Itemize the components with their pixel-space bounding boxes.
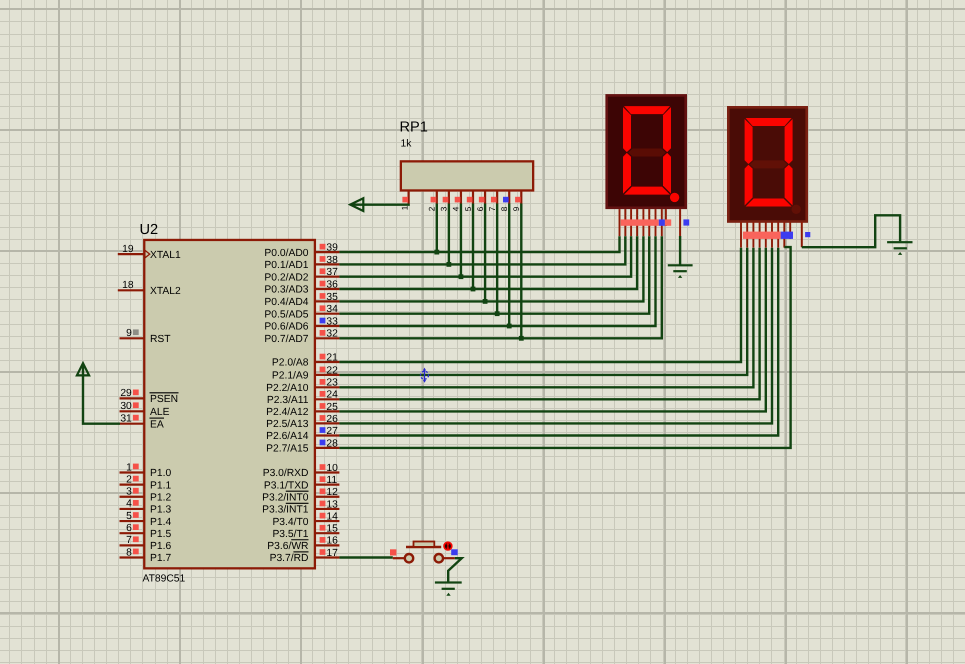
U2 pin 15 P3.5/T1 (right stub): [315, 524, 340, 535]
svg-text:4: 4: [452, 206, 461, 211]
U2 pin 21 P2.0/A8 (right stub): [315, 352, 340, 363]
DS1 terminal squares bar (red): [621, 219, 659, 225]
svg-text:P2.7/A15: P2.7/A15: [266, 444, 309, 455]
U2 pin 22 P2.1/A9 (right stub): [315, 365, 340, 376]
U2 pin name P2.7/A15: [266, 444, 309, 455]
svg-text:P0.0/AD0: P0.0/AD0: [264, 248, 308, 259]
U2 pin 29 PSEN (left stub): [120, 388, 145, 399]
wire P2.6 from U2 to DS2: [339, 248, 778, 436]
svg-text:U2: U2: [140, 222, 159, 238]
U2 pin 6 P1.5 (left stub): [120, 523, 145, 534]
wire P0.3 from U2 to DS1: [339, 236, 637, 289]
U2 pin 9 RST (left stub): [120, 328, 145, 339]
U2 reference label: [140, 222, 159, 238]
U2 pin 12 P3.2/INT0 (right stub): [315, 487, 340, 498]
U2 pin 3 P1.2 (left stub): [120, 487, 145, 498]
svg-text:7: 7: [488, 206, 497, 211]
wire DS2 common to right ground: [802, 215, 900, 247]
svg-text:14: 14: [326, 511, 338, 522]
U2 pin name PSEN: [150, 393, 179, 405]
svg-text:34: 34: [326, 304, 338, 315]
U2 pin name P3.3/INT1: [262, 503, 309, 515]
DS2 segment D (bottom, lit): [746, 199, 792, 207]
wire P0.7 from U2 to DS1: [339, 236, 661, 338]
wire P0.1 from U2 to DS1: [339, 236, 625, 264]
svg-text:8: 8: [500, 206, 509, 211]
U2 pin name P0.7/AD7: [264, 334, 308, 345]
svg-text:ALE: ALE: [150, 407, 170, 418]
DS1 segment G (middle, unlit): [628, 149, 666, 157]
U2 pin name P0.0/AD0: [264, 248, 308, 259]
svg-text:P0.3/AD3: P0.3/AD3: [264, 285, 308, 296]
svg-text:P1.3: P1.3: [150, 505, 171, 516]
U2 pin 28 P2.7/A15 (right stub): [315, 438, 340, 449]
push button right contact: [435, 554, 455, 562]
U2 pin name P2.3/A11: [267, 395, 309, 406]
wire RP1 pin 8 down to P0.6 net: [508, 204, 510, 327]
U2 pin name P3.6/WR: [267, 540, 308, 552]
RP1 pin 6 stub: [476, 191, 485, 212]
DS2 segment E (bottom-left, lit): [745, 165, 753, 206]
U2 pin name P0.6/AD6: [264, 322, 308, 333]
RP1 value label 1k: [401, 139, 413, 150]
svg-text:P1.4: P1.4: [150, 517, 171, 528]
U2 pin name XTAL1: [150, 250, 181, 261]
svg-text:7: 7: [126, 535, 132, 546]
svg-text:38: 38: [326, 255, 338, 266]
svg-text:P3.0/RXD: P3.0/RXD: [263, 468, 309, 479]
RP1 pin 3 stub: [440, 191, 449, 212]
U2 pin name P3.7/RD: [270, 552, 309, 564]
U2 pin 23 P2.2/A10 (right stub): [315, 378, 340, 389]
svg-text:P3.4/T0: P3.4/T0: [272, 517, 308, 528]
svg-text:P1.6: P1.6: [150, 541, 171, 552]
U2 pin name P2.2/A10: [266, 383, 309, 394]
svg-text:19: 19: [122, 244, 134, 255]
svg-text:P1.1: P1.1: [150, 480, 171, 491]
svg-text:EA: EA: [150, 419, 164, 430]
svg-text:22: 22: [326, 365, 338, 376]
RP1 pin 9 stub: [512, 191, 521, 212]
U2 pin name P3.0/RXD: [263, 468, 309, 479]
svg-text:P2.4/A12: P2.4/A12: [266, 407, 309, 418]
U2 pin name P0.4/AD4: [264, 297, 308, 308]
svg-text:P0.5/AD5: P0.5/AD5: [264, 309, 308, 320]
U2 pin name P0.3/AD3: [264, 285, 308, 296]
wire P2.1 from U2 to DS2: [339, 248, 747, 375]
wire RP1 pin 2 down to P0.0 net: [436, 204, 438, 253]
svg-text:27: 27: [326, 426, 338, 437]
wire P0.5 from U2 to DS1: [339, 236, 649, 314]
U2 pin 10 P3.0/RXD (right stub): [315, 463, 340, 474]
wire P0.4 from U2 to DS1: [339, 236, 643, 301]
svg-text:RST: RST: [150, 334, 171, 345]
svg-text:1: 1: [126, 462, 132, 473]
svg-text:6: 6: [126, 523, 132, 534]
U2 pin name P1.4: [150, 517, 171, 528]
wire P2.0 from U2 to DS2: [339, 248, 741, 362]
DS2 terminal squares bar (red): [743, 232, 781, 239]
svg-text:RP1: RP1: [400, 120, 428, 136]
DS1 segment A (top, lit): [624, 106, 670, 114]
U2 pin 37 P0.2/AD2 (right stub): [315, 267, 340, 278]
svg-text:32: 32: [326, 329, 338, 340]
svg-text:30: 30: [120, 401, 132, 412]
svg-text:15: 15: [326, 524, 338, 535]
U2 pin name P1.5: [150, 529, 171, 540]
wire power terminal to U2 EA pin 31: [83, 364, 120, 424]
svg-text:P2.1/A9: P2.1/A9: [272, 371, 309, 382]
U2 pin 5 P1.4 (left stub): [120, 511, 145, 522]
DS1 segment E (bottom-left, lit): [623, 153, 631, 194]
U2 pin name P2.4/A12: [266, 407, 309, 418]
ground symbol right of DS2: [887, 241, 912, 255]
svg-text:4: 4: [126, 499, 132, 510]
DS2 segment F (top-left, lit): [745, 119, 753, 164]
resistor pack RP1 body: [401, 161, 533, 190]
switch blue square marker: [451, 549, 458, 555]
U2 pin name P1.7: [150, 553, 171, 564]
U2 pin 25 P2.4/A12 (right stub): [315, 402, 340, 413]
RP1 pin 4 stub: [452, 191, 461, 212]
svg-text:12: 12: [326, 487, 338, 498]
U2 pin 27 P2.6/A14 (right stub): [315, 426, 340, 437]
svg-text:P3.7/RD: P3.7/RD: [270, 553, 309, 564]
wire P2.2 from U2 to DS2: [339, 248, 753, 388]
svg-text:XTAL1: XTAL1: [150, 250, 181, 261]
svg-text:25: 25: [326, 402, 338, 413]
U2 pin 19 XTAL1 (left stub): [118, 244, 150, 258]
wire RP1 pin 4 down to P0.2 net: [460, 204, 462, 277]
DS2 segment B (top-right, lit): [785, 119, 793, 164]
wire RP1 pin 9 down to P0.7 net: [520, 204, 522, 339]
svg-text:36: 36: [326, 279, 338, 290]
origin marker (blue crosshair): [421, 368, 429, 383]
wire P2.7 from U2 to DS2 (with jog): [339, 247, 790, 448]
DS2 common pin stub: [801, 222, 803, 247]
U2 pin 24 P2.3/A11 (right stub): [315, 390, 340, 401]
DS2 pins (9 stubs below body): [741, 222, 790, 248]
microcontroller U2 AT89C51 body: [144, 240, 315, 568]
U2 pin name ALE: [150, 407, 170, 418]
svg-text:XTAL2: XTAL2: [150, 286, 181, 297]
U2 pin name P2.6/A14: [266, 431, 309, 442]
junction node P0.3 / RP1-5: [471, 287, 476, 292]
wire P2.4 from U2 to DS2: [339, 248, 765, 412]
push button left contact: [393, 554, 413, 562]
svg-text:9: 9: [126, 328, 132, 339]
DS2 decimal point: [792, 205, 801, 214]
svg-text:24: 24: [326, 390, 338, 401]
svg-text:P3.3/INT1: P3.3/INT1: [262, 505, 309, 516]
DS2 floating blue square (second common): [805, 232, 810, 237]
svg-text:P0.1/AD1: P0.1/AD1: [264, 260, 308, 271]
U2 pin name P1.0: [150, 468, 171, 479]
push button actuator bar: [406, 546, 441, 548]
U2 pin name P2.1/A9: [272, 371, 309, 382]
svg-text:23: 23: [326, 378, 338, 389]
DS1 common pin stub: [679, 209, 681, 236]
U2 pin 1 P1.0 (left stub): [120, 462, 145, 473]
svg-text:P1.7: P1.7: [150, 553, 171, 564]
svg-text:33: 33: [326, 316, 338, 327]
U2 pin name P0.1/AD1: [264, 260, 308, 271]
svg-text:29: 29: [120, 388, 132, 399]
svg-text:26: 26: [326, 414, 338, 425]
U2 pin 26 P2.5/A13 (right stub): [315, 414, 340, 425]
U2 pin name RST: [150, 334, 171, 345]
svg-text:P2.0/A8: P2.0/A8: [272, 358, 309, 369]
svg-text:28: 28: [326, 438, 338, 449]
U2 pin name P3.4/T0: [272, 517, 308, 528]
wire U2 P3.7 pin 17 to switch: [339, 556, 392, 558]
svg-text:P2.2/A10: P2.2/A10: [266, 383, 309, 394]
DS1 terminal square blue (dp): [659, 219, 665, 225]
DS1 pins (9 stubs below body): [620, 209, 666, 236]
svg-text:P3.2/INT0: P3.2/INT0: [262, 492, 309, 503]
U2 pin 34 P0.5/AD5 (right stub): [315, 304, 340, 315]
U2 pin 4 P1.3 (left stub): [120, 499, 145, 510]
svg-text:3: 3: [126, 487, 132, 498]
U2 pin name P1.1: [150, 480, 171, 491]
wire switch to ground (with diagonal): [448, 558, 462, 581]
U2 pin 17 P3.7/RD (right stub): [315, 548, 340, 559]
svg-text:16: 16: [326, 536, 338, 547]
DS1 segment D (bottom, lit): [624, 187, 670, 195]
U2 pin name P3.1/TXD: [264, 480, 309, 491]
ground symbol below DS1: [668, 264, 693, 278]
wire P2.5 from U2 to DS2: [339, 248, 772, 424]
svg-text:P0.4/AD4: P0.4/AD4: [264, 297, 308, 308]
U2 pin name P1.6: [150, 541, 171, 552]
junction node P0.7 / RP1-9: [519, 336, 524, 341]
junction node P0.1 / RP1-3: [446, 262, 451, 267]
DS1 segment B (top-right, lit): [663, 107, 671, 152]
svg-text:31: 31: [120, 414, 132, 425]
svg-text:P1.0: P1.0: [150, 468, 171, 479]
wire P0.2 from U2 to DS1: [339, 236, 631, 277]
U2 pin 31 EA (left stub): [120, 414, 145, 425]
DS2 segment G (middle, unlit): [750, 160, 788, 168]
7-segment display DS2 body: [728, 107, 806, 221]
wire RP1 pin 6 down to P0.4 net: [484, 204, 486, 302]
junction node P0.4 / RP1-6: [483, 299, 488, 304]
svg-text:39: 39: [326, 243, 338, 254]
svg-text:9: 9: [512, 206, 521, 211]
svg-text:37: 37: [326, 267, 338, 278]
svg-text:5: 5: [126, 511, 132, 522]
junction node P0.5 / RP1-7: [495, 311, 500, 316]
U2 pin 14 P3.4/T0 (right stub): [315, 511, 340, 522]
wire RP1 pin 5 down to P0.3 net: [472, 204, 474, 290]
U2 pin 38 P0.1/AD1 (right stub): [315, 255, 340, 266]
svg-text:P2.6/A14: P2.6/A14: [266, 431, 309, 442]
DS1 floating blue square (second common): [683, 219, 689, 225]
U2 pin name P2.0/A8: [272, 358, 309, 369]
svg-text:2: 2: [428, 206, 437, 211]
wire RP1 pin 3 down to P0.1 net: [448, 204, 450, 265]
svg-text:2: 2: [126, 474, 132, 485]
RP1 reference label: [400, 120, 428, 136]
DS2 segment C (bottom-right, lit): [785, 165, 793, 206]
svg-text:P0.7/AD7: P0.7/AD7: [264, 334, 308, 345]
svg-text:P2.5/A13: P2.5/A13: [266, 419, 309, 430]
DS2 terminal squares blue (dp+nc): [781, 232, 793, 239]
RP1 pin 1 stub: [400, 191, 409, 211]
RP1 pin 2 stub: [428, 191, 437, 212]
wire RP1 pin 7 down to P0.5 net: [496, 204, 498, 314]
U2 pin 35 P0.4/AD4 (right stub): [315, 292, 340, 303]
DS1 terminal square red (last): [665, 219, 671, 225]
U2 pin 30 ALE (left stub): [120, 401, 145, 412]
U2 pin name P0.2/AD2: [264, 272, 308, 283]
U2 pin name P1.2: [150, 492, 171, 503]
push button cap: [414, 542, 435, 547]
wire P0.6 from U2 to DS1: [339, 236, 655, 326]
input terminal arrow (left-pointing, hollow): [350, 198, 363, 211]
U2 pin name P3.2/INT0: [262, 491, 309, 503]
U2 pin 36 P0.3/AD3 (right stub): [315, 279, 340, 290]
svg-text:P3.1/TXD: P3.1/TXD: [264, 480, 309, 491]
svg-text:PSEN: PSEN: [150, 394, 178, 405]
U2 pin name P2.5/A13: [266, 419, 309, 430]
U2 pin name P3.5/T1: [272, 529, 308, 540]
U2 pin name EA: [150, 418, 165, 430]
svg-text:P3.6/WR: P3.6/WR: [267, 541, 308, 552]
svg-text:35: 35: [326, 292, 338, 303]
U2 pin 7 P1.6 (left stub): [120, 535, 145, 546]
7-segment display DS1 body: [607, 95, 686, 207]
svg-text:8: 8: [126, 547, 132, 558]
junction node P0.0 / RP1-2: [434, 250, 439, 255]
DS1 decimal point: [670, 193, 679, 202]
U2 pin 13 P3.3/INT1 (right stub): [315, 499, 340, 510]
svg-text:1k: 1k: [401, 139, 413, 150]
junction node P0.2 / RP1-4: [459, 274, 464, 279]
junction node P0.6 / RP1-8: [507, 324, 512, 329]
svg-text:1: 1: [400, 205, 409, 210]
U2 pin 32 P0.7/AD7 (right stub): [315, 329, 340, 340]
ground symbol below switch: [435, 581, 462, 595]
svg-text:10: 10: [326, 463, 338, 474]
U2 pin 2 P1.1 (left stub): [120, 474, 145, 485]
U2 pin 33 P0.6/AD6 (right stub): [315, 316, 340, 327]
wire P2.3 from U2 to DS2: [339, 248, 759, 400]
DS1 segment C (bottom-right, lit): [663, 153, 671, 194]
DS1 segment F (top-left, lit): [623, 107, 631, 152]
U2 pin 39 P0.0/AD0 (right stub): [315, 243, 340, 254]
svg-text:3: 3: [440, 206, 449, 211]
svg-text:P1.5: P1.5: [150, 529, 171, 540]
power terminal arrow (up, hollow): [77, 363, 89, 375]
svg-text:AT89C51: AT89C51: [143, 574, 186, 585]
svg-text:P2.3/A11: P2.3/A11: [267, 395, 309, 406]
U2 pin 11 P3.1/TXD (right stub): [315, 475, 340, 486]
U2 value label AT89C51: [143, 574, 186, 585]
svg-text:6: 6: [476, 206, 485, 211]
svg-text:18: 18: [122, 280, 134, 291]
wire DS1 common to ground: [679, 236, 681, 265]
push button interactive red dot marker: [443, 541, 452, 550]
wire RP1 pin 1 to input terminal: [351, 204, 409, 205]
svg-text:11: 11: [326, 475, 337, 486]
U2 pin name XTAL2: [150, 286, 181, 297]
switch red square marker (wire end): [390, 549, 396, 555]
U2 pin name P0.5/AD5: [264, 309, 308, 320]
RP1 pin 7 stub: [488, 191, 497, 212]
svg-text:P1.2: P1.2: [150, 492, 171, 503]
svg-text:17: 17: [326, 548, 338, 559]
RP1 pin 8 stub: [500, 191, 509, 212]
svg-text:P0.2/AD2: P0.2/AD2: [264, 272, 308, 283]
U2 pin 16 P3.6/WR (right stub): [315, 536, 340, 547]
U2 pin name P1.3: [150, 505, 171, 516]
svg-text:P0.6/AD6: P0.6/AD6: [264, 322, 308, 333]
svg-text:13: 13: [326, 499, 338, 510]
svg-text:21: 21: [326, 352, 338, 363]
RP1 pin 5 stub: [464, 191, 473, 212]
wire P0.0 from U2 to DS1: [339, 236, 619, 252]
U2 pin 8 P1.7 (left stub): [120, 547, 145, 558]
DS2 segment A (top, lit): [746, 118, 792, 126]
svg-text:P3.5/T1: P3.5/T1: [272, 529, 308, 540]
U2 pin 18 XTAL2 (left stub): [118, 280, 145, 291]
svg-text:5: 5: [464, 206, 473, 211]
